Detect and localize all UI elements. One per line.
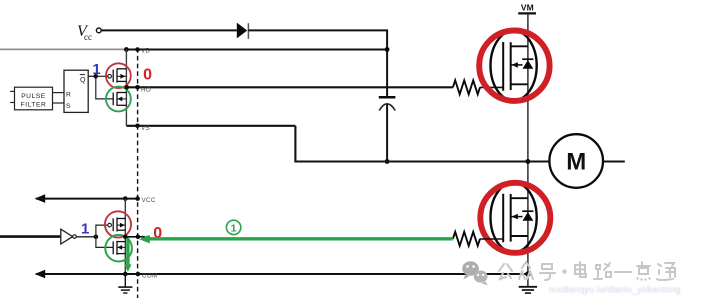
- pulse filter block: [15, 87, 53, 110]
- watermark text: [499, 262, 675, 280]
- main drain-source column: [527, 14, 529, 286]
- junction dot VB-diode: [385, 47, 390, 52]
- wire VCC rail: [36, 198, 138, 200]
- motor M: [549, 134, 603, 188]
- junction dot VCC internal: [123, 196, 128, 201]
- green circle annotation top N-FET: [106, 87, 131, 112]
- svg-text:R: R: [66, 92, 71, 99]
- COM rail arrow: [35, 270, 46, 279]
- wire Q to node: [88, 75, 96, 77]
- wire R2 to gate: [480, 238, 503, 240]
- circled 1 annotation: [226, 220, 240, 234]
- wire VS internal: [126, 125, 295, 127]
- VCC rail arrow: [35, 194, 46, 203]
- wire node to N gate bottom: [96, 237, 113, 248]
- wire filter to latch R: [53, 92, 65, 94]
- inverter input wire: [0, 235, 61, 238]
- capacitor C1 bootstrap: [379, 96, 396, 99]
- junction dot COM internal: [123, 272, 128, 277]
- svg-text:cc: cc: [84, 32, 92, 42]
- junction dot HO midpoint: [125, 85, 130, 90]
- wire R1 to gate: [480, 86, 503, 88]
- svg-text:Q: Q: [80, 75, 86, 84]
- red ring Q2: [480, 183, 550, 253]
- IC boundary dashed: [137, 48, 139, 298]
- pin dot VB: [135, 47, 140, 52]
- ground power stage: [519, 287, 537, 293]
- green current path vertical: [126, 238, 129, 265]
- wire motor right: [603, 160, 625, 162]
- Vcc terminal: [96, 28, 101, 33]
- red circle annotation top P-FET: [106, 63, 131, 88]
- wire totem vertical top: [125, 50, 127, 126]
- wire HO: [127, 86, 453, 88]
- red ring Q1: [479, 30, 549, 100]
- pin dot HO: [135, 85, 140, 90]
- resistor R1 gate HS: [453, 80, 480, 94]
- wire totem vertical bottom: [124, 199, 126, 274]
- driver P-FET top: [108, 69, 127, 83]
- watermark dot separator: [562, 269, 566, 273]
- wire C1 to VS node: [386, 104, 388, 161]
- wire node to P gate: [96, 75, 108, 77]
- wire node to N gate: [96, 76, 113, 99]
- VM terminal bar: [518, 12, 536, 14]
- wire filter to latch S: [53, 102, 65, 104]
- MOSFET Q1 high-side: [490, 31, 536, 101]
- junction dot C1-VS: [385, 159, 390, 164]
- wire node to P gate bottom: [96, 225, 108, 237]
- node gate drive top dot: [94, 74, 99, 79]
- junction dot VS-motor: [525, 159, 530, 164]
- wire inverter to node: [76, 236, 96, 238]
- pin dot COM: [136, 272, 141, 277]
- svg-text:HO: HO: [141, 87, 151, 94]
- green arrowhead down: [124, 264, 131, 272]
- green arrowhead left: [139, 235, 150, 243]
- svg-text:1: 1: [81, 220, 89, 237]
- junction dot VB internal: [124, 47, 129, 52]
- wire VB rail black: [126, 49, 387, 51]
- wire Vcc to diode: [101, 29, 236, 31]
- watermark icon chat bubbles: [462, 261, 488, 285]
- wire node to motor: [528, 160, 550, 162]
- node gate drive bottom dot: [94, 235, 99, 240]
- red circle annotation bottom P-FET: [105, 211, 131, 237]
- green circle annotation bottom N-FET: [105, 235, 132, 262]
- wire VS step to output node: [295, 126, 528, 162]
- resistor R2 gate LS: [453, 232, 480, 246]
- MOSFET Q2 low-side: [490, 183, 536, 253]
- green current path horizontal: [149, 237, 453, 240]
- diode D1 bootstrap: [237, 23, 247, 39]
- inverter U2: [61, 229, 73, 244]
- wire LO stub: [125, 236, 145, 238]
- svg-text:VS: VS: [141, 125, 150, 132]
- wire VB rail left gray: [0, 48, 126, 50]
- pin dot VCC: [135, 196, 140, 201]
- pin dot VS: [135, 124, 140, 129]
- wire COM rail: [36, 273, 528, 275]
- svg-text:PULSE: PULSE: [21, 93, 46, 100]
- junction dot LO midpoint: [123, 235, 128, 240]
- svg-text:VM: VM: [521, 2, 534, 12]
- svg-text:mxdlanqyu.lu/dianlu_yidiantong: mxdlanqyu.lu/dianlu_yidiantong: [549, 285, 681, 295]
- IC ground: [118, 274, 132, 293]
- watermark dots of dian: [636, 277, 650, 280]
- wire diode to bootstrap node: [248, 30, 387, 96]
- pin dot LO: [136, 235, 141, 240]
- driver N-FET bottom: [113, 241, 125, 255]
- SR latch U1: [64, 70, 88, 112]
- svg-text:M: M: [566, 149, 586, 176]
- svg-text:1: 1: [231, 222, 237, 234]
- svg-text:0: 0: [143, 67, 152, 84]
- svg-text:COM: COM: [142, 272, 158, 279]
- driver N-FET top: [113, 92, 126, 106]
- driver P-FET bottom: [108, 218, 126, 232]
- svg-text:FILTER: FILTER: [21, 102, 47, 109]
- svg-text:VB: VB: [141, 47, 150, 54]
- pulse filter input stubs: [10, 90, 14, 92]
- svg-text:S: S: [66, 103, 71, 110]
- junction dot COM power: [525, 271, 530, 276]
- svg-text:VCC: VCC: [142, 197, 156, 204]
